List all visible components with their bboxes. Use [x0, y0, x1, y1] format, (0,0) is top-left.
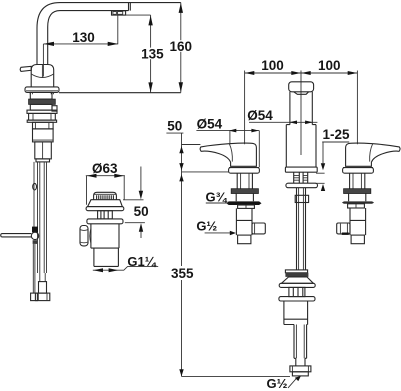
hose collar — [36, 159, 50, 162]
waste tailpipe lower — [294, 325, 307, 359]
waste body — [91, 224, 119, 248]
body center line — [41, 65, 43, 78]
bottom nut — [290, 366, 311, 372]
waste slotted section — [289, 287, 305, 296]
spout tailpipe — [297, 188, 306, 270]
waste cone — [88, 200, 123, 207]
rod bead — [33, 183, 37, 190]
spout mounting studs — [294, 172, 308, 183]
svg-text:G¾: G¾ — [206, 190, 228, 205]
rod lower section — [33, 244, 35, 293]
dimension 50 left — [123, 167, 145, 239]
svg-text:135: 135 — [141, 47, 164, 62]
svg-text:G1¼: G1¼ — [127, 254, 156, 269]
base flange — [25, 87, 59, 93]
faucet body — [31, 65, 54, 87]
svg-text:50: 50 — [134, 204, 149, 219]
supply hoses — [38, 162, 47, 282]
waste dark seal band — [285, 273, 308, 277]
left handle valve body — [236, 208, 252, 235]
left lever handle — [200, 143, 256, 166]
shank section — [30, 104, 52, 110]
dimension G1 1/4 — [93, 267, 158, 271]
waste flange plate — [86, 207, 124, 211]
left handle bottom block — [238, 235, 251, 244]
waste body — [284, 301, 308, 325]
dimension 100+100 line — [245, 71, 358, 156]
waste cone — [281, 277, 313, 283]
spout cap — [289, 82, 314, 92]
washer plate — [27, 110, 57, 113]
spout column — [290, 92, 312, 125]
svg-text:355: 355 — [171, 266, 194, 281]
svg-text:50: 50 — [167, 118, 182, 133]
dimension 135 — [126, 15, 151, 93]
spout aerator notch — [294, 92, 309, 95]
waste cap hatch — [97, 195, 114, 199]
spout base — [286, 125, 316, 168]
dimension 130 line — [43, 15, 118, 76]
mounting nut — [29, 113, 56, 120]
left handle shank — [237, 173, 252, 189]
left handle nut — [238, 205, 255, 208]
waste slip bar — [285, 270, 307, 273]
waste body boss — [90, 229, 91, 244]
spout base plate — [285, 167, 317, 172]
waste slotted section — [98, 211, 113, 219]
aerator — [112, 11, 126, 15]
hose end nut — [35, 293, 49, 301]
left handle clamp washer — [226, 201, 261, 205]
rod housing capsule — [80, 226, 88, 246]
left handle seal ring — [231, 189, 258, 194]
body cartridge arc — [31, 74, 53, 78]
left handle outlet — [252, 223, 265, 234]
spout base shoulders — [286, 124, 316, 126]
connector block — [33, 122, 54, 129]
svg-text:G½: G½ — [267, 376, 288, 391]
spout tube outer line (continues as 160 reference line) — [37, 3, 181, 65]
dimension 160 — [180, 3, 182, 93]
dimension 355 — [179, 174, 183, 181]
rod clamp — [32, 227, 38, 233]
threaded shank — [30, 92, 52, 99]
waste cap dome — [94, 192, 117, 199]
waste plate 2 — [279, 297, 315, 301]
horizontal pop-up rod — [1, 234, 32, 237]
bottom reference line — [182, 376, 291, 378]
side stub — [52, 106, 57, 111]
svg-text:100: 100 — [318, 58, 341, 73]
clamp washer plate — [286, 183, 318, 188]
svg-text:1-25: 1-25 — [322, 127, 350, 142]
svg-text:G½: G½ — [196, 219, 217, 234]
lower clamp — [33, 240, 38, 244]
waste plate 1 — [279, 283, 315, 287]
hose junction box — [33, 129, 54, 142]
lever handle stub — [20, 66, 31, 71]
hose end fitting — [39, 282, 47, 294]
right lever handle mirrored — [346, 143, 400, 166]
waste tailpipe — [94, 248, 119, 266]
ball joint — [31, 232, 38, 239]
pop-up rod — [33, 162, 35, 232]
spout end cap — [129, 3, 131, 11]
svg-text:160: 160 — [170, 39, 193, 54]
svg-text:130: 130 — [72, 30, 95, 45]
rod foot — [31, 293, 38, 301]
spout tube inner line — [48, 11, 129, 65]
tailpipe slim section — [294, 358, 307, 366]
tailpipe slip nut — [295, 195, 308, 202]
bottom block — [292, 372, 308, 376]
fiber washer ring — [29, 99, 56, 104]
left handle escutcheon — [229, 167, 259, 169]
washer plate 2 — [27, 120, 56, 122]
svg-text:100: 100 — [261, 58, 284, 73]
left handle shank 2 — [236, 194, 253, 202]
svg-text:Ø54: Ø54 — [197, 116, 223, 131]
svg-text:Ø54: Ø54 — [247, 108, 273, 123]
waste flange plate 2 — [87, 219, 123, 224]
deck surface line — [59, 92, 181, 94]
hose junction lower box — [35, 142, 52, 159]
